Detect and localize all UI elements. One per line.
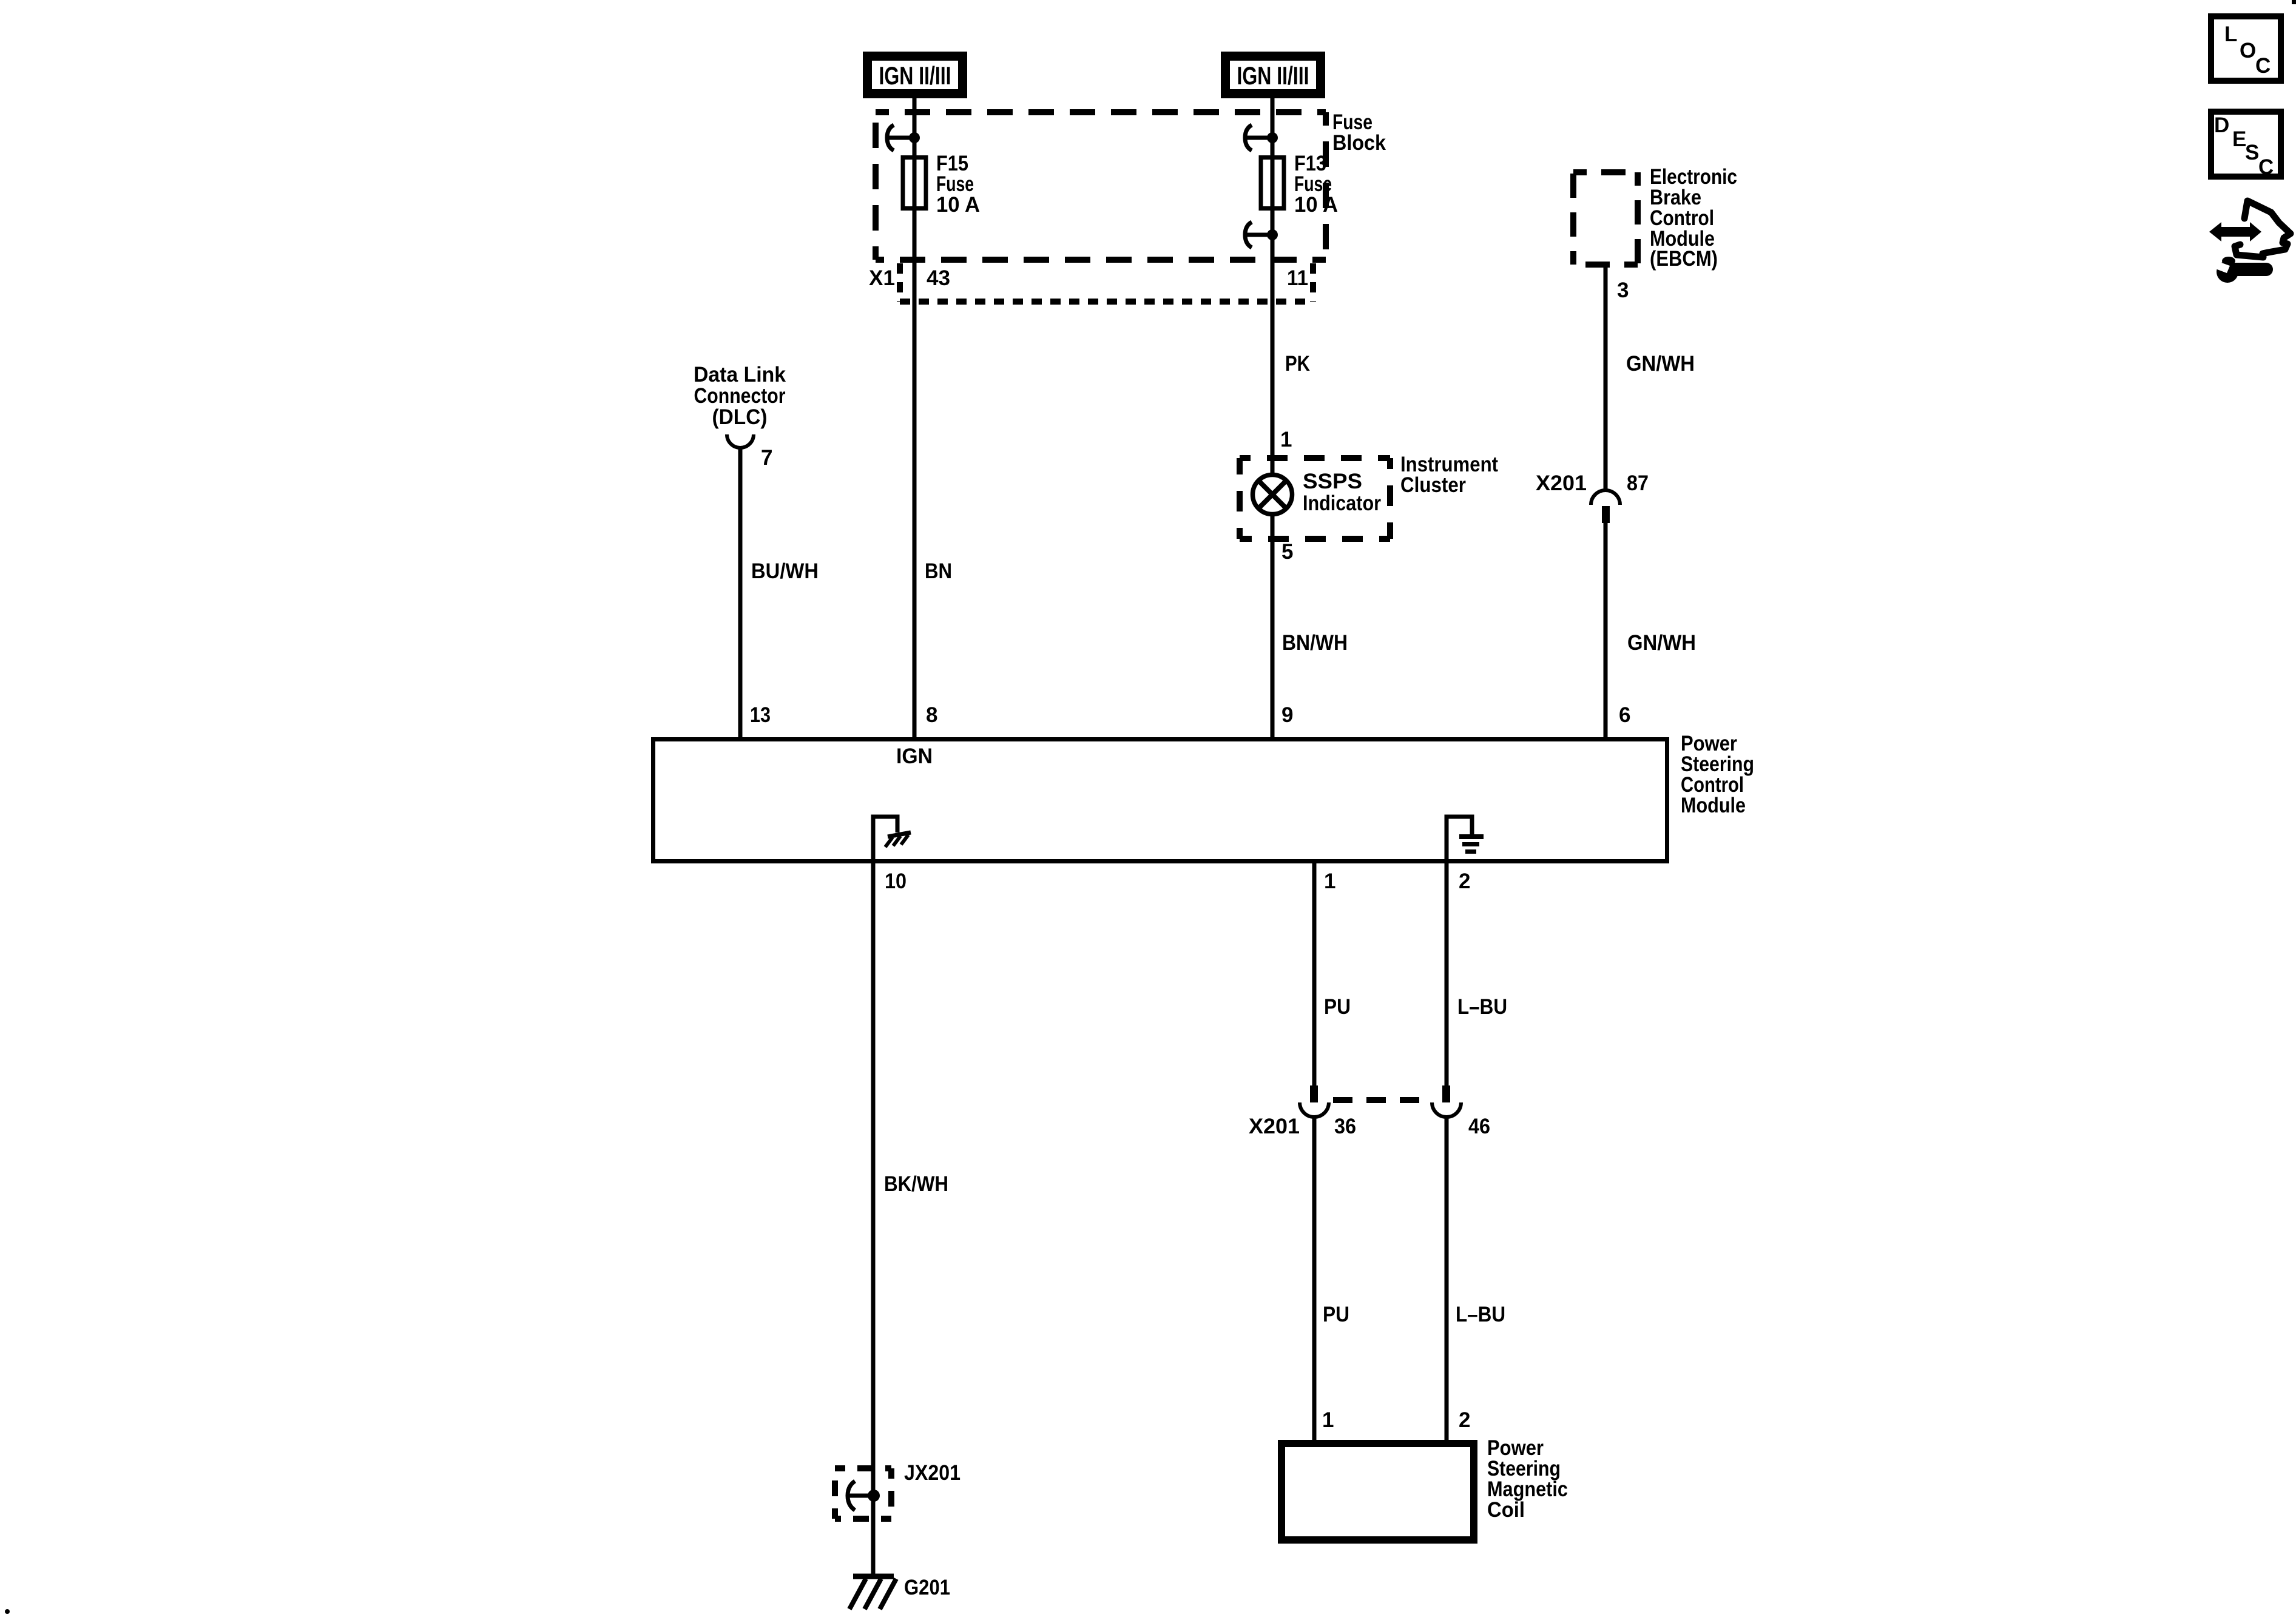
wire PU (pin 1 to X201-36) — [1312, 863, 1317, 1085]
svg-text:PU: PU — [1324, 995, 1351, 1019]
svg-text:Connector: Connector — [694, 384, 786, 408]
svg-text:C: C — [2258, 155, 2274, 179]
connector X201 pin 87 — [1536, 471, 1649, 523]
connector X1 dotted boundary — [869, 263, 1313, 302]
svg-text:Block: Block — [1332, 131, 1386, 155]
svg-text:L–BU: L–BU — [1457, 995, 1507, 1019]
dashed link X201 — [1333, 1097, 1428, 1103]
junction JX201 — [835, 1461, 961, 1519]
svg-text:Cluster: Cluster — [1400, 473, 1466, 497]
svg-text:Module: Module — [1681, 794, 1746, 817]
svg-text:BN: BN — [925, 559, 952, 583]
svg-text:PK: PK — [1285, 352, 1310, 376]
svg-text:L–BU: L–BU — [1456, 1303, 1505, 1326]
ground G201 — [849, 1576, 950, 1609]
svg-text:10 A: 10 A — [936, 193, 980, 217]
svg-text:1: 1 — [1280, 428, 1292, 451]
svg-text:IGN: IGN — [896, 744, 933, 768]
svg-text:10: 10 — [885, 869, 907, 893]
power symbol IGN II/III (left) — [863, 52, 967, 98]
icon connector-repair (arrow, terminal, wrench) — [2209, 201, 2291, 283]
svg-text:GN/WH: GN/WH — [1627, 631, 1696, 655]
icon LOC box — [2211, 16, 2281, 81]
fuse block dashed box — [876, 110, 1386, 260]
svg-text:11: 11 — [1287, 266, 1308, 290]
wire PU (X201-36 to coil) — [1312, 1117, 1317, 1440]
svg-text:X1: X1 — [869, 266, 895, 290]
corner mark top-right — [2292, 0, 2296, 4]
svg-text:GN/WH: GN/WH — [1626, 352, 1695, 376]
svg-text:L: L — [2224, 22, 2237, 46]
svg-text:1: 1 — [1324, 869, 1335, 893]
svg-text:E: E — [2232, 127, 2246, 151]
svg-text:S: S — [2245, 141, 2259, 164]
svg-text:13: 13 — [750, 703, 771, 727]
svg-text:1: 1 — [1322, 1408, 1334, 1432]
svg-text:10 A: 10 A — [1294, 193, 1338, 217]
wire L-BU (pin 2 to X201-46) — [1445, 863, 1449, 1085]
svg-text:PU: PU — [1323, 1303, 1349, 1326]
svg-text:SSPS: SSPS — [1303, 470, 1362, 493]
fuse F15 10A — [903, 152, 980, 217]
module EBCM dashed box — [1573, 165, 1737, 271]
svg-text:G201: G201 — [904, 1576, 950, 1599]
instrument cluster dashed box — [1240, 453, 1498, 539]
svg-text:8: 8 — [926, 703, 937, 727]
svg-text:46: 46 — [1468, 1115, 1490, 1138]
data link connector DLC — [694, 363, 786, 448]
lamp SSPS indicator — [1253, 470, 1382, 515]
corner mark bottom-left — [5, 1609, 10, 1614]
svg-text:Coil: Coil — [1487, 1498, 1525, 1522]
power symbol IGN II/III (right) — [1221, 52, 1325, 98]
wire GN/WH (X201-87 to PSCM) — [1604, 523, 1608, 737]
internal earth ground (pin 2) — [1447, 817, 1484, 863]
svg-text:2: 2 — [1459, 1408, 1470, 1432]
fuse F13 10A — [1261, 152, 1338, 217]
svg-text:BN/WH: BN/WH — [1282, 631, 1348, 655]
svg-text:(DLC): (DLC) — [712, 405, 768, 429]
svg-text:BU/WH: BU/WH — [751, 559, 819, 583]
internal chassis ground (pin 10) — [873, 817, 911, 863]
connector X201 pin 46 — [1432, 1085, 1490, 1138]
wire BN (fuse F15 branch) — [913, 98, 917, 737]
wire PK / BN/WH (fuse F13 branch) — [1271, 98, 1275, 737]
clip terminal at F13 output — [1245, 222, 1278, 248]
module Power Steering Control Module — [653, 732, 1755, 862]
svg-text:43: 43 — [927, 266, 950, 290]
svg-text:X201: X201 — [1249, 1115, 1300, 1138]
svg-text:3: 3 — [1617, 279, 1629, 302]
svg-text:BK/WH: BK/WH — [884, 1172, 948, 1196]
clip terminal at F13 input — [1245, 125, 1278, 150]
svg-text:IGN II/III: IGN II/III — [1237, 61, 1309, 90]
svg-text:JX201: JX201 — [904, 1461, 961, 1485]
wire BK/WH (pin 10 to G201) — [871, 863, 876, 1575]
svg-text:2: 2 — [1459, 869, 1470, 893]
svg-text:O: O — [2240, 39, 2256, 62]
svg-text:X201: X201 — [1536, 471, 1587, 495]
svg-text:Indicator: Indicator — [1303, 491, 1381, 515]
wire L-BU (X201-46 to coil) — [1445, 1117, 1449, 1440]
wire GN/WH (EBCM to X201-87) — [1604, 268, 1608, 489]
connector X201 pin 36 — [1249, 1085, 1356, 1138]
svg-text:(EBCM): (EBCM) — [1650, 247, 1718, 271]
clip terminal at F15 input — [887, 125, 920, 150]
svg-text:7: 7 — [761, 446, 772, 470]
svg-text:Data Link: Data Link — [694, 363, 786, 387]
module Power Steering Magnetic Coil — [1281, 1436, 1568, 1540]
svg-text:6: 6 — [1619, 703, 1630, 727]
icon DESC box — [2211, 112, 2281, 179]
svg-text:9: 9 — [1281, 703, 1293, 727]
svg-text:IGN II/III: IGN II/III — [879, 61, 951, 90]
svg-text:36: 36 — [1334, 1115, 1356, 1138]
svg-text:D: D — [2214, 113, 2229, 137]
svg-text:5: 5 — [1281, 540, 1293, 564]
svg-text:87: 87 — [1627, 471, 1649, 495]
wire BU/WH (DLC) — [738, 449, 743, 737]
svg-text:C: C — [2255, 54, 2271, 78]
